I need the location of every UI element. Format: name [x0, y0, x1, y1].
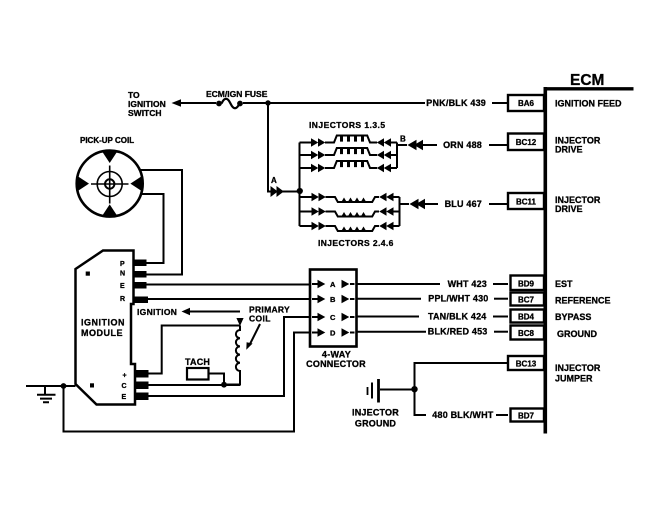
- svg-text:WHT 423: WHT 423: [448, 279, 487, 289]
- svg-text:P: P: [120, 261, 125, 268]
- svg-text:B: B: [330, 295, 336, 304]
- svg-text:BC7: BC7: [518, 296, 535, 305]
- svg-text:D: D: [330, 329, 336, 338]
- svg-text:B: B: [400, 135, 406, 144]
- svg-text:BLU 467: BLU 467: [445, 199, 482, 209]
- svg-text:PPL/WHT 430: PPL/WHT 430: [428, 294, 488, 304]
- svg-text:ORN 488: ORN 488: [443, 140, 482, 150]
- svg-text:MODULE: MODULE: [81, 328, 123, 338]
- svg-text:ECM/IGN FUSE: ECM/IGN FUSE: [206, 89, 268, 99]
- svg-text:BC12: BC12: [516, 138, 537, 147]
- svg-text:CONNECTOR: CONNECTOR: [306, 359, 366, 369]
- svg-text:E: E: [122, 394, 127, 401]
- svg-text:TAN/BLK 424: TAN/BLK 424: [428, 312, 487, 322]
- svg-text:C: C: [330, 313, 336, 322]
- svg-text:REFERENCE: REFERENCE: [555, 295, 611, 305]
- svg-text:BC11: BC11: [516, 198, 537, 207]
- svg-text:TACH: TACH: [185, 357, 210, 367]
- svg-text:4-WAY: 4-WAY: [322, 350, 351, 360]
- svg-text:INJECTORS 1.3.5: INJECTORS 1.3.5: [309, 120, 386, 130]
- svg-text:SWITCH: SWITCH: [128, 108, 162, 118]
- svg-text:BD7: BD7: [518, 412, 535, 421]
- svg-text:+: +: [123, 373, 127, 380]
- svg-text:GROUND: GROUND: [557, 329, 597, 339]
- svg-text:BD9: BD9: [518, 280, 535, 289]
- svg-text:A: A: [330, 280, 336, 289]
- svg-text:INJECTORS 2.4.6: INJECTORS 2.4.6: [318, 238, 394, 248]
- svg-text:C: C: [122, 383, 127, 390]
- svg-text:N: N: [120, 271, 125, 278]
- svg-text:PICK-UP COIL: PICK-UP COIL: [80, 136, 134, 145]
- svg-text:E: E: [120, 283, 125, 290]
- svg-text:IGNITION: IGNITION: [81, 318, 125, 328]
- svg-text:R: R: [120, 296, 125, 303]
- svg-text:JUMPER: JUMPER: [555, 373, 593, 383]
- svg-text:BYPASS: BYPASS: [555, 312, 591, 322]
- svg-text:GROUND: GROUND: [355, 418, 396, 428]
- svg-text:ECM: ECM: [570, 72, 604, 89]
- svg-text:BC13: BC13: [516, 360, 537, 369]
- svg-text:EST: EST: [555, 279, 573, 289]
- svg-text:DRIVE: DRIVE: [555, 204, 583, 214]
- svg-text:BLK/RED 453: BLK/RED 453: [428, 327, 488, 337]
- svg-text:A: A: [271, 176, 277, 185]
- svg-text:INJECTOR: INJECTOR: [352, 408, 399, 418]
- svg-text:BD4: BD4: [518, 313, 535, 322]
- svg-text:BC8: BC8: [518, 329, 535, 338]
- svg-text:PNK/BLK 439: PNK/BLK 439: [426, 98, 486, 108]
- svg-text:IGNITION: IGNITION: [137, 307, 177, 317]
- svg-text:480 BLK/WHT: 480 BLK/WHT: [432, 410, 494, 420]
- svg-text:BA6: BA6: [518, 99, 535, 108]
- svg-text:DRIVE: DRIVE: [555, 145, 583, 155]
- svg-text:INJECTOR: INJECTOR: [555, 363, 601, 373]
- svg-text:COIL: COIL: [249, 313, 271, 323]
- svg-text:IGNITION FEED: IGNITION FEED: [555, 99, 622, 109]
